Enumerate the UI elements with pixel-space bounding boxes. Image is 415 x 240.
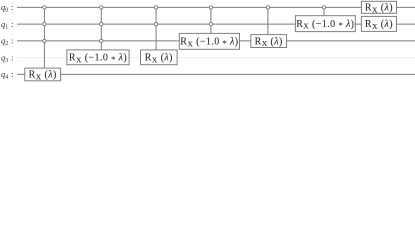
open control on q2 (col2) bbox=[100, 39, 103, 42]
wire q2 bbox=[17, 40, 415, 42]
wire q3 (renders almost invisible in source) bbox=[17, 57, 415, 59]
qubit label q4 bbox=[1, 70, 13, 81]
wire q1 bbox=[17, 23, 415, 25]
open control on q1 (col1) bbox=[43, 23, 46, 26]
control line col1 bbox=[43, 7, 45, 68]
open control on q0 (col2) bbox=[100, 6, 103, 9]
wire q4 bbox=[17, 73, 415, 75]
open control on q0 (col6) bbox=[322, 6, 325, 9]
svg-text:RX (λ): RX (λ) bbox=[255, 36, 283, 48]
qubit label q1 bbox=[1, 20, 13, 31]
qubit label q3 bbox=[1, 53, 13, 64]
B6 gate RX(−1.0*λ) on q1 bbox=[295, 16, 355, 32]
open control on q1 (col3) bbox=[154, 23, 157, 26]
svg-text:RX (−1.0 * λ): RX (−1.0 * λ) bbox=[180, 37, 238, 49]
B4 gate RX(−1.0*λ) on q2 bbox=[179, 33, 239, 49]
control line col6 bbox=[323, 7, 325, 15]
open control on q1 (col2) bbox=[100, 23, 103, 26]
wire q0 bbox=[17, 6, 415, 8]
svg-text:RX (λ): RX (λ) bbox=[29, 70, 57, 82]
B3 gate RX(λ) on q3 bbox=[141, 50, 178, 65]
svg-text:RX (λ): RX (λ) bbox=[365, 19, 393, 31]
control line col2 bbox=[100, 7, 102, 50]
qubit label q0 bbox=[1, 3, 13, 14]
control line col4 bbox=[210, 7, 212, 33]
B1 gate RX(λ) on q4 bbox=[25, 68, 61, 81]
B5 gate RX(λ) on q2 bbox=[251, 35, 287, 49]
B7 gate RX(λ) on q1 bbox=[361, 16, 396, 31]
B8 gate RX(λ) on q0 bbox=[361, 1, 396, 14]
open control on q2 (col1) bbox=[43, 39, 46, 42]
control line col5 bbox=[267, 7, 269, 34]
open control on q0 (col4) bbox=[209, 6, 212, 9]
svg-text:RX (λ): RX (λ) bbox=[365, 3, 393, 15]
svg-text:RX (−1.0 * λ): RX (−1.0 * λ) bbox=[296, 19, 354, 31]
open control on q0 (col1) bbox=[43, 6, 46, 9]
control line col3 bbox=[155, 7, 157, 50]
qubit label q2 bbox=[1, 37, 13, 48]
svg-text:RX (−1.0 * λ): RX (−1.0 * λ) bbox=[69, 53, 127, 65]
open control on q0 (col5) bbox=[266, 6, 269, 9]
open control on q0 (col3) bbox=[154, 6, 157, 9]
svg-text:RX (λ): RX (λ) bbox=[145, 53, 173, 65]
open control on q1 (col4) bbox=[209, 23, 212, 26]
B2 gate RX(−1.0*λ) on q3 bbox=[67, 50, 129, 65]
